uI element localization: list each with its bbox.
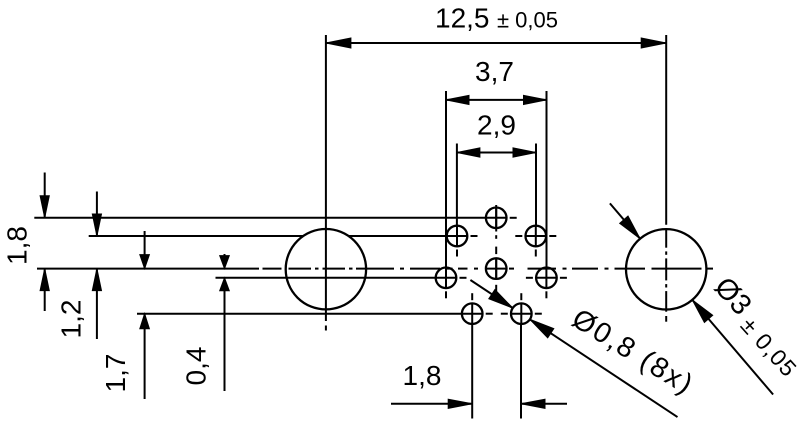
svg-text:Ø3: Ø3: [708, 271, 758, 321]
upper-right 0,8mm hole: [515, 226, 556, 257]
svg-text:0,4: 0,4: [181, 347, 212, 386]
svg-text:2,9: 2,9: [477, 110, 516, 141]
vertical centreline of hole pattern (dash-dot): [495, 205, 497, 291]
svg-text:1,2: 1,2: [56, 300, 87, 339]
dimension 1,8 (top row to centre): [2, 173, 50, 312]
leader line diameter 0,8 (8x): [470, 280, 699, 417]
svg-text:1,8: 1,8: [2, 226, 33, 265]
extension line bottom row y=313.7: [137, 313, 463, 315]
top 0,8mm hole: [486, 208, 517, 229]
dimension 2,9 (upper hole row span): [457, 110, 536, 227]
svg-text:1,8: 1,8: [403, 360, 442, 391]
extension/centre line through left hole: [325, 35, 327, 331]
extension line upper row y=236 (broken at left hole): [89, 235, 448, 237]
dimension 1,2 (upper row to centre): [56, 192, 102, 340]
extension/centre line through right hole: [665, 35, 667, 322]
right 3mm hole: [626, 229, 706, 309]
centre 0,8mm hole: [486, 258, 507, 279]
svg-text:3,7: 3,7: [475, 56, 514, 87]
svg-text:1,7: 1,7: [100, 354, 131, 393]
lower-right 0,8mm hole: [501, 293, 542, 324]
svg-text:± 0,05: ± 0,05: [736, 312, 800, 382]
lower-left 0,8mm hole: [462, 293, 493, 324]
upper-left 0,8mm hole: [447, 226, 478, 257]
middle-left 0,8mm hole: [436, 268, 467, 299]
extension line top hole row y=217.8: [34, 217, 486, 219]
left 3mm hole: [286, 229, 366, 309]
horizontal centreline (dash-dot): [37, 268, 713, 270]
extension line middle row y=277.8: [216, 277, 437, 279]
leader line diameter 3 +/-0,05: [610, 203, 800, 394]
dimension 3,7 (middle hole row span): [446, 56, 547, 268]
dimension 1,8 (bottom hole spacing): [391, 324, 567, 419]
dimension 1,7 (centre to bottom row): [100, 231, 149, 399]
dimension 0,4 (centre to middle row): [181, 254, 230, 391]
middle-right 0,8mm hole: [526, 268, 567, 299]
svg-text:± 0,05: ± 0,05: [497, 8, 558, 33]
svg-text:12,5: 12,5: [435, 3, 490, 34]
dimension 12,5 +/-0,05 (overall hole distance): [326, 3, 666, 49]
